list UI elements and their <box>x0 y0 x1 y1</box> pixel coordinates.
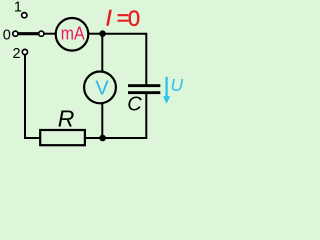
wire: ammeter to top node <box>88 33 102 35</box>
switch contact left <box>13 31 18 36</box>
voltage arrow U (across capacitor) <box>165 77 167 98</box>
svg-text:1: 1 <box>14 0 22 15</box>
wire: bottom node to resistor <box>85 137 103 139</box>
resistor R body <box>40 130 85 145</box>
terminal 2 contact <box>22 49 27 54</box>
svg-text:2: 2 <box>13 46 21 62</box>
wire: capacitor bottom down to bottom-right corner <box>103 94 147 138</box>
wire: switch to ammeter <box>44 33 56 35</box>
capacitor C top plate <box>128 84 160 87</box>
bottom node junction <box>99 135 106 142</box>
switch contact right <box>39 31 44 36</box>
svg-text:mA: mA <box>61 23 85 43</box>
svg-text:0: 0 <box>128 6 140 31</box>
svg-text:U: U <box>171 75 184 95</box>
svg-text:0: 0 <box>3 27 11 43</box>
svg-text:V: V <box>95 78 109 100</box>
voltmeter V1 <box>84 72 116 104</box>
svg-text:R: R <box>58 105 75 131</box>
node junction top <box>99 30 106 37</box>
capacitor C bottom plate <box>128 91 160 94</box>
wire: top node down to voltmeter <box>101 34 103 72</box>
wire: top node to top-right corner and down to capacitor <box>103 34 147 85</box>
svg-text:I: I <box>106 6 112 31</box>
wire: voltmeter to bottom node <box>101 103 103 138</box>
switch lever (closed to position 0) <box>18 32 39 35</box>
ammeter A1 <box>56 18 89 51</box>
wire: resistor to left branch (terminal 2) <box>25 55 40 138</box>
terminal 1 contact <box>22 13 27 18</box>
svg-text:C: C <box>127 94 142 116</box>
